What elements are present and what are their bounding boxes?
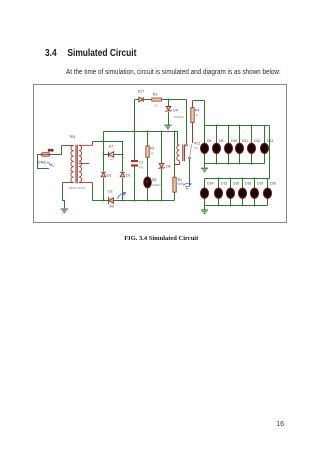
svg-text:D5: D5 — [152, 178, 156, 182]
svg-text:50: 50 — [122, 193, 126, 197]
page number — [276, 419, 284, 428]
svg-text:D19: D19 — [257, 181, 263, 185]
svg-text:D12: D12 — [254, 139, 260, 143]
svg-text:TR1: TR1 — [69, 135, 76, 139]
svg-text:D6: D6 — [166, 164, 170, 168]
fuse FU1 — [42, 149, 54, 156]
diode D2 on bottom bus — [109, 197, 114, 208]
svg-text:RL1: RL1 — [194, 142, 200, 146]
PUT D5 — [144, 177, 152, 188]
wire bank feed right riser — [269, 126, 271, 179]
LED D10 — [224, 125, 237, 165]
wire C2 bottom lead — [134, 166, 136, 200]
wire bank2 cathode bus — [205, 205, 268, 207]
wire bank2 anode bus — [205, 178, 270, 180]
resistor R4 — [191, 101, 194, 143]
svg-text:D18: D18 — [245, 181, 251, 185]
wire bank1 cathode bus — [205, 163, 265, 165]
wire bottom bus — [93, 200, 175, 202]
heading 3.4 Simulated Circuit — [45, 48, 136, 59]
LED D14 — [200, 179, 213, 206]
ground (LED bank 2) — [201, 210, 208, 214]
wire LED bank feed riser — [204, 101, 206, 126]
wire primary bottom to ground — [63, 183, 65, 209]
wire fuse to transformer primary — [50, 146, 62, 155]
diode D7 — [109, 152, 114, 160]
wire C2 top lead — [134, 132, 136, 161]
blue probe at contact pole — [183, 183, 191, 188]
wire secondary bottom drop — [92, 183, 94, 201]
wire R1 top lead — [147, 132, 149, 146]
svg-text:R4: R4 — [195, 108, 199, 112]
svg-text:5V: 5V — [194, 146, 198, 150]
ground (LED bank 1) — [201, 168, 208, 172]
wire regulated top rail — [135, 99, 187, 101]
wire junction dots — [103, 99, 176, 202]
ground (transformer primary) — [61, 209, 68, 213]
svg-text:D3: D3 — [107, 174, 111, 178]
wire D7 bridge — [104, 154, 123, 156]
diode D1 — [120, 172, 125, 177]
wire left rectifier column — [103, 132, 105, 172]
LED D11 — [235, 125, 248, 165]
svg-text:CN1: CN1 — [38, 159, 47, 164]
wire AC source loop — [38, 155, 49, 169]
svg-text:1k: 1k — [150, 151, 154, 155]
svg-text:TRAN-2P3S: TRAN-2P3S — [68, 186, 85, 190]
wire D4 to ground — [168, 112, 170, 125]
svg-text:56: 56 — [181, 182, 185, 186]
svg-text:D7: D7 — [109, 144, 113, 148]
svg-text:2N6027: 2N6027 — [152, 183, 163, 187]
diode D3 — [101, 172, 106, 177]
wire R2 to bus — [174, 192, 176, 200]
caption — [124, 235, 198, 242]
LED D8 — [200, 126, 211, 164]
wire bank1 anode bus — [205, 125, 270, 127]
wire D1 cathode to bus — [122, 178, 124, 201]
svg-text:47u: 47u — [139, 165, 144, 169]
svg-text:D15: D15 — [221, 181, 227, 185]
LED D16 — [226, 178, 239, 207]
LED D20 — [263, 179, 276, 206]
wire D5 to bus — [147, 188, 149, 201]
svg-text:1k: 1k — [154, 104, 158, 108]
svg-text:D1: D1 — [126, 173, 130, 177]
wire secondary top to rectifier — [93, 142, 123, 172]
wire bank2 ground drop — [204, 206, 206, 210]
diode D17 — [139, 97, 143, 102]
resistor R2 — [173, 177, 176, 192]
resistor R1 — [146, 146, 149, 157]
zener D6 — [159, 164, 165, 169]
svg-text:D16: D16 — [233, 181, 239, 185]
zener D4 — [166, 107, 172, 112]
node CN1 label (blue) — [38, 159, 54, 166]
LED D13 — [260, 126, 273, 164]
wire D4 top lead — [168, 100, 170, 107]
svg-text:D8: D8 — [207, 139, 211, 143]
svg-text:D10: D10 — [231, 139, 237, 143]
relay RL1 coil — [175, 145, 185, 165]
blue actuator arrow at D2 — [118, 192, 126, 199]
resistor R3 — [152, 98, 162, 101]
LED D18 — [238, 178, 251, 207]
svg-text:C2: C2 — [139, 161, 143, 165]
capacitor C2 — [131, 160, 138, 166]
LED D9 — [212, 125, 223, 165]
LED D12 — [247, 125, 260, 165]
wire D6 top lead — [161, 132, 163, 164]
wire D17 feed riser — [134, 100, 136, 132]
wire secondary top riser — [92, 142, 94, 146]
body paragraph — [66, 67, 281, 76]
wire relay contact COM feed — [186, 100, 188, 138]
svg-text:D2: D2 — [108, 190, 112, 194]
svg-text:D4: D4 — [173, 109, 177, 113]
svg-text:D11: D11 — [242, 139, 248, 143]
svg-text:D9: D9 — [219, 139, 223, 143]
LED D15 — [214, 178, 227, 207]
wire bank1 ground drop — [204, 164, 206, 168]
relay contact — [186, 137, 192, 159]
wire contact pole to probe — [189, 159, 191, 187]
svg-text:47: 47 — [195, 113, 199, 117]
svg-text:D17: D17 — [138, 90, 144, 94]
svg-text:D13: D13 — [267, 139, 273, 143]
wire main DC rail — [104, 132, 178, 145]
svg-text:D20: D20 — [270, 181, 276, 185]
wire R1 to D5 — [147, 157, 149, 177]
LED D19 — [250, 178, 263, 207]
wire D3 cathode to bus — [103, 178, 105, 201]
svg-text:D14: D14 — [207, 181, 213, 185]
wire R2 top lead — [174, 132, 176, 178]
svg-text:1N5231: 1N5231 — [173, 115, 184, 119]
wire R4 top rail segment — [193, 100, 205, 102]
svg-text:R3: R3 — [153, 93, 157, 97]
svg-text:R1: R1 — [150, 147, 154, 151]
ground (zener D4) — [164, 125, 171, 129]
transformer TR1 — [62, 145, 93, 184]
wire D6 to bus — [161, 169, 163, 201]
circuit figure frame — [33, 84, 287, 223]
